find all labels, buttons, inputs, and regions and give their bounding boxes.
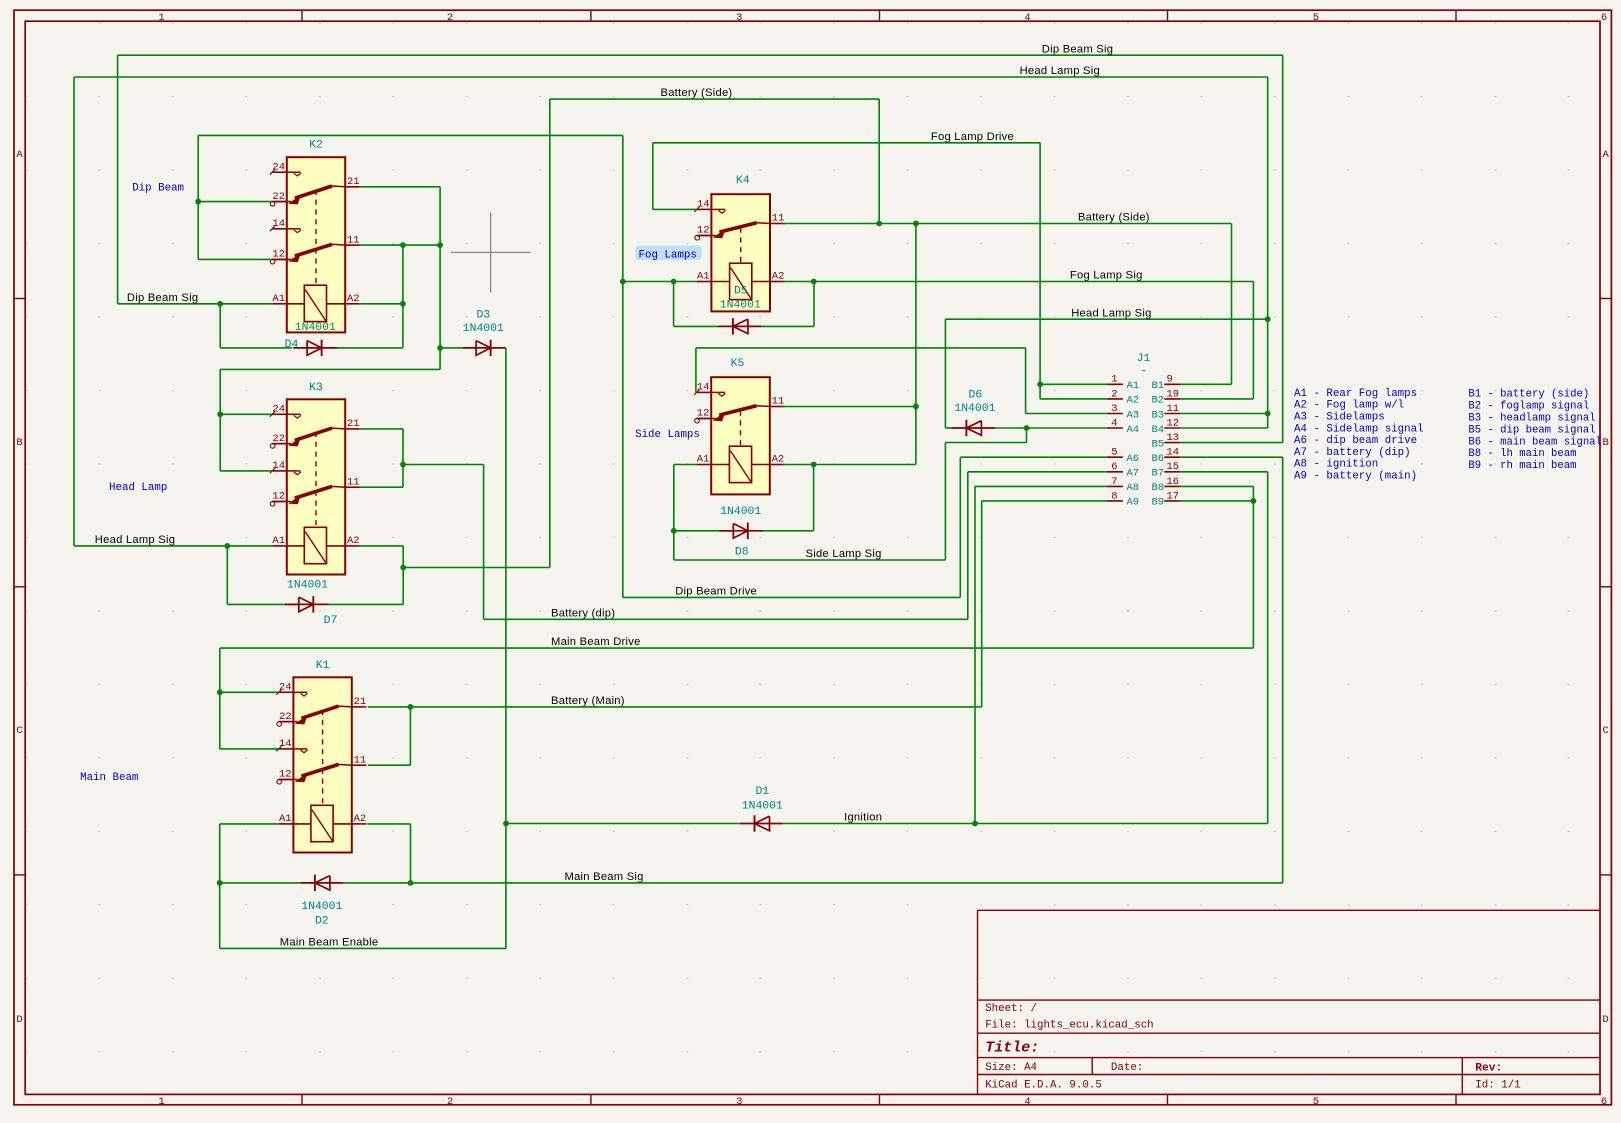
- svg-text:Side Lamp Sig: Side Lamp Sig: [806, 548, 882, 560]
- svg-text:B5 - dip beam signal: B5 - dip beam signal: [1468, 424, 1595, 436]
- svg-text:B: B: [16, 437, 22, 449]
- wire: [360, 486, 403, 488]
- net Fog Lamp Drive: [653, 143, 1107, 399]
- wire: [328, 603, 403, 605]
- junction: [876, 221, 882, 227]
- svg-text:A2: A2: [772, 271, 785, 283]
- junction: [913, 221, 919, 227]
- junction: [1037, 381, 1043, 387]
- svg-text:D3: D3: [476, 309, 490, 321]
- wire: [197, 135, 199, 259]
- svg-text:1N4001: 1N4001: [720, 506, 761, 518]
- wire: [1180, 427, 1267, 429]
- wire: [410, 706, 981, 708]
- svg-text:B2 - foglamp signal: B2 - foglamp signal: [1468, 401, 1589, 413]
- wire: [439, 187, 441, 370]
- svg-text:B6 - main beam signal: B6 - main beam signal: [1468, 436, 1602, 448]
- wire: [550, 98, 879, 100]
- svg-text:14: 14: [1167, 447, 1180, 459]
- net K2 contacts (Dip Beam): [198, 135, 272, 259]
- diode D5: [718, 318, 761, 334]
- svg-text:5: 5: [1313, 1096, 1319, 1108]
- diode D3: [462, 340, 505, 356]
- svg-text:B4: B4: [1152, 424, 1165, 436]
- svg-text:14: 14: [272, 460, 285, 472]
- svg-text:Ignition: Ignition: [844, 812, 882, 824]
- junction: [400, 301, 406, 307]
- wire: [198, 201, 272, 203]
- svg-text:Dip Beam Sig: Dip Beam Sig: [127, 292, 198, 304]
- relay K2: [270, 140, 360, 333]
- wire: [975, 485, 1107, 487]
- junction: [408, 704, 414, 710]
- J1 pin 4 (A4): [1107, 427, 1123, 429]
- svg-text:19: 19: [1167, 388, 1180, 400]
- wire: [220, 347, 292, 349]
- wire: [410, 824, 412, 883]
- wire: [673, 465, 675, 561]
- diode D4: [293, 340, 336, 356]
- wire: [74, 76, 1268, 78]
- svg-text:K5: K5: [731, 358, 745, 370]
- wire: [220, 823, 279, 825]
- wire: [981, 501, 983, 707]
- wire: [402, 546, 404, 605]
- svg-text:Battery (dip): Battery (dip): [551, 607, 615, 619]
- connector J1: [1107, 353, 1180, 509]
- svg-text:11: 11: [772, 213, 785, 225]
- wire: [813, 465, 815, 531]
- svg-text:Size: A4: Size: A4: [985, 1062, 1037, 1074]
- svg-text:Date:: Date:: [1111, 1062, 1143, 1074]
- svg-text:B8 - lh main beam: B8 - lh main beam: [1468, 448, 1576, 460]
- wire: [409, 707, 411, 765]
- svg-text:A9 - battery (main): A9 - battery (main): [1294, 471, 1417, 483]
- wire: [945, 318, 1267, 320]
- svg-text:4: 4: [1024, 1096, 1030, 1108]
- wire: [220, 470, 272, 472]
- svg-text:Title:: Title:: [985, 1040, 1039, 1057]
- svg-text:C: C: [1602, 725, 1608, 737]
- junction: [400, 242, 406, 248]
- wire: [220, 882, 301, 884]
- svg-text:B2: B2: [1152, 395, 1165, 407]
- svg-text:Fog Lamp Sig: Fog Lamp Sig: [1070, 270, 1143, 282]
- svg-text:11: 11: [347, 476, 360, 488]
- wire: [1252, 486, 1254, 648]
- svg-text:Id: 1/1: Id: 1/1: [1475, 1080, 1520, 1092]
- svg-text:24: 24: [272, 404, 285, 416]
- svg-text:A2: A2: [772, 454, 785, 466]
- wire: [219, 304, 221, 348]
- svg-text:A1: A1: [697, 454, 710, 466]
- net Main Beam Enable: [220, 947, 506, 949]
- wire: [118, 54, 1283, 56]
- svg-text:24: 24: [272, 161, 285, 173]
- svg-text:K1: K1: [316, 660, 330, 672]
- junction: [503, 821, 509, 827]
- svg-text:11: 11: [772, 396, 785, 408]
- wire: [198, 258, 272, 260]
- svg-text:Head Lamp Sig: Head Lamp Sig: [95, 534, 175, 546]
- J1 pin 5 (A6): [1107, 456, 1123, 458]
- wire: [219, 648, 221, 749]
- wire: [1025, 348, 1027, 414]
- svg-text:A8: A8: [1127, 482, 1140, 494]
- svg-text:A: A: [16, 149, 23, 161]
- svg-text:D6: D6: [968, 390, 982, 402]
- wire: [403, 567, 550, 569]
- wire: [1282, 457, 1284, 883]
- svg-text:K2: K2: [309, 140, 323, 152]
- wire: [368, 706, 411, 708]
- wire: [1267, 77, 1269, 428]
- wire: [411, 882, 1283, 884]
- svg-text:D: D: [1602, 1014, 1608, 1026]
- wire: [1252, 282, 1254, 399]
- svg-text:12: 12: [1167, 417, 1180, 429]
- net Fog Lamp Sig / K4 coil: [198, 135, 1253, 597]
- svg-text:4: 4: [1024, 12, 1030, 24]
- svg-text:1N4001: 1N4001: [742, 800, 783, 812]
- svg-text:A7: A7: [1127, 468, 1140, 480]
- svg-text:A1: A1: [272, 293, 285, 305]
- wire: [549, 99, 551, 567]
- svg-text:2: 2: [447, 12, 453, 24]
- wire: [945, 442, 1026, 444]
- svg-text:A2: A2: [347, 293, 360, 305]
- wire: [915, 224, 917, 465]
- wire: [652, 143, 654, 210]
- svg-text:21: 21: [347, 418, 360, 430]
- svg-text:A2: A2: [347, 535, 360, 547]
- wire: [220, 368, 440, 370]
- net Side Lamp Sig / K5 coil / D8: [674, 428, 1027, 560]
- svg-text:4: 4: [1111, 417, 1117, 429]
- wire: [483, 465, 485, 620]
- svg-text:Side Lamps: Side Lamps: [635, 429, 700, 441]
- wire: [1180, 442, 1282, 444]
- svg-text:6: 6: [1111, 461, 1117, 473]
- svg-text:B7: B7: [1152, 468, 1165, 480]
- junction: [671, 279, 677, 285]
- title block: [978, 910, 1601, 1094]
- svg-text:8: 8: [1111, 490, 1117, 502]
- wire: [674, 559, 946, 561]
- wire: [505, 348, 507, 949]
- wire: [674, 530, 733, 532]
- wire: [960, 456, 1107, 458]
- svg-text:A1: A1: [279, 813, 292, 825]
- wire: [623, 596, 961, 598]
- junction: [1265, 316, 1271, 322]
- svg-text:K3: K3: [309, 382, 323, 394]
- wire: [359, 303, 403, 305]
- wire: [198, 134, 623, 136]
- svg-text:A3 - Sidelamps: A3 - Sidelamps: [1294, 412, 1385, 424]
- junction: [224, 543, 230, 549]
- wire: [484, 618, 968, 620]
- wire: [343, 882, 410, 884]
- svg-text:A1: A1: [697, 271, 710, 283]
- svg-text:13: 13: [1167, 432, 1180, 444]
- relay K1: [276, 660, 366, 853]
- wire: [1180, 413, 1267, 415]
- net Dip Beam Sig: top bus: [118, 55, 1283, 442]
- junction: [811, 462, 817, 468]
- wire: [813, 282, 815, 327]
- wire: [783, 823, 1268, 825]
- wire: [220, 413, 272, 415]
- net labels: [95, 43, 1152, 948]
- svg-text:1N4001: 1N4001: [720, 299, 761, 311]
- svg-text:1N4001: 1N4001: [287, 579, 328, 591]
- wire: [360, 428, 403, 430]
- svg-text:C: C: [16, 725, 22, 737]
- junction: [437, 242, 443, 248]
- junction: [913, 404, 919, 410]
- wire: [360, 186, 440, 188]
- svg-text:A9: A9: [1127, 497, 1140, 509]
- svg-text:Dip Beam: Dip Beam: [132, 182, 184, 194]
- junction: [1251, 498, 1257, 504]
- svg-text:11: 11: [1167, 403, 1180, 415]
- svg-text:Main Beam Enable: Main Beam Enable: [280, 937, 379, 949]
- svg-text:6: 6: [1601, 1096, 1607, 1108]
- svg-text:B6: B6: [1152, 453, 1165, 465]
- J1 pin 7 (A8): [1107, 485, 1123, 487]
- svg-text:3: 3: [1111, 403, 1117, 415]
- svg-text:D8: D8: [735, 547, 749, 559]
- svg-text:24: 24: [279, 682, 292, 694]
- note Fog Lamps (selected): [636, 246, 702, 261]
- net K2 coil / D4 loop / Dip Beam Sig label row: [220, 304, 403, 348]
- wire: [674, 325, 719, 327]
- svg-text:A3: A3: [1127, 409, 1140, 421]
- net K2 output 21/11 to D3: [220, 187, 506, 949]
- wire: [673, 282, 675, 327]
- net Sidelamp signal A4 / D6: [945, 427, 1107, 429]
- note A pin list: [1294, 388, 1424, 483]
- svg-text:A1 - Rear Fog lamps: A1 - Rear Fog lamps: [1294, 388, 1417, 400]
- svg-text:Rev:: Rev:: [1475, 1062, 1502, 1074]
- wire: [878, 99, 880, 223]
- svg-text:Head Lamp: Head Lamp: [109, 482, 167, 494]
- net K3 output 21/11: [360, 429, 484, 619]
- J1 pin 1 (A1): [1107, 383, 1123, 385]
- svg-text:1N4001: 1N4001: [954, 403, 995, 415]
- diode D1: [740, 815, 783, 831]
- svg-text:B3: B3: [1152, 409, 1165, 421]
- J1 pin 6 (A7): [1107, 471, 1123, 473]
- svg-text:14: 14: [697, 382, 710, 394]
- svg-text:K4: K4: [736, 175, 750, 187]
- wire: [440, 347, 462, 349]
- wire: [982, 500, 1107, 502]
- svg-text:A1: A1: [1127, 380, 1140, 392]
- wire: [1180, 456, 1282, 458]
- svg-text:B1 - battery (side): B1 - battery (side): [1468, 389, 1589, 401]
- svg-text:14: 14: [697, 199, 710, 211]
- wire: [402, 245, 404, 348]
- relay K3: [270, 382, 360, 575]
- junction: [217, 411, 223, 417]
- svg-text:Main Beam Sig: Main Beam Sig: [565, 871, 644, 883]
- svg-text:A1: A1: [272, 535, 285, 547]
- svg-text:3: 3: [736, 1096, 742, 1108]
- wire: [761, 325, 815, 327]
- wire: [368, 764, 411, 766]
- wire: [944, 319, 946, 428]
- wire: [674, 464, 697, 466]
- wire: [506, 823, 740, 825]
- wire: [359, 545, 403, 547]
- svg-text:9: 9: [1167, 374, 1173, 386]
- svg-text:14: 14: [279, 738, 292, 750]
- wire: [761, 530, 814, 532]
- svg-text:1: 1: [158, 1096, 164, 1108]
- wire: [653, 208, 697, 210]
- net Battery (dip): [484, 472, 1107, 620]
- svg-text:A4: A4: [1127, 424, 1140, 436]
- svg-text:11: 11: [347, 234, 360, 246]
- wire: [1026, 428, 1028, 443]
- J1 pin 3 (A3): [1107, 413, 1123, 415]
- wire: [74, 545, 272, 547]
- svg-text:1: 1: [1111, 374, 1117, 386]
- svg-text:1N4001: 1N4001: [463, 323, 504, 335]
- net Main Beam Drive: [220, 486, 1254, 749]
- wire: [220, 748, 279, 750]
- wire: [653, 142, 1040, 144]
- wire: [1039, 143, 1041, 399]
- svg-text:15: 15: [1167, 461, 1180, 473]
- wire: [623, 281, 697, 283]
- wire: [994, 427, 1107, 429]
- svg-text:J1: J1: [1137, 353, 1151, 365]
- svg-text:A8 - ignition: A8 - ignition: [1294, 459, 1378, 471]
- junction: [671, 528, 677, 534]
- wire: [220, 647, 1254, 649]
- junction: [217, 689, 223, 695]
- svg-text:A: A: [1602, 149, 1609, 161]
- svg-text:7: 7: [1111, 476, 1117, 488]
- wire: [220, 947, 506, 949]
- wire: [367, 823, 410, 825]
- net Dip Beam Drive: [623, 457, 1107, 597]
- svg-text:Battery (Side): Battery (Side): [661, 87, 733, 99]
- svg-text:Battery (Side): Battery (Side): [1078, 211, 1150, 223]
- wire: [783, 406, 916, 408]
- svg-text:Main Beam Drive: Main Beam Drive: [551, 636, 641, 648]
- junction: [620, 279, 626, 285]
- wire: [968, 471, 1107, 473]
- svg-text:D4: D4: [285, 339, 299, 351]
- relay K4: [694, 175, 784, 311]
- net Main Beam Sig / D2: [220, 457, 1283, 948]
- wire: [695, 348, 697, 393]
- svg-text:16: 16: [1167, 476, 1180, 488]
- diode D2: [300, 875, 343, 891]
- svg-text:KiCad E.D.A. 9.0.5: KiCad E.D.A. 9.0.5: [985, 1080, 1102, 1092]
- wire: [783, 464, 916, 466]
- diode D6: [952, 420, 995, 436]
- svg-text:A6 - dip beam drive: A6 - dip beam drive: [1294, 435, 1417, 447]
- wire: [219, 369, 221, 471]
- wire: [944, 443, 946, 561]
- svg-text:D1: D1: [755, 786, 769, 798]
- wire: [1180, 398, 1253, 400]
- net Battery (Main): [368, 501, 1107, 765]
- wire: [1026, 413, 1107, 415]
- svg-text:Sheet: /: Sheet: /: [985, 1003, 1037, 1015]
- svg-text:B9: B9: [1152, 497, 1165, 509]
- junction: [408, 880, 414, 886]
- wire: [622, 135, 624, 597]
- wire: [220, 691, 279, 693]
- svg-text:21: 21: [354, 696, 367, 708]
- junction: [400, 565, 406, 571]
- svg-text:A7 - battery (dip): A7 - battery (dip): [1294, 447, 1411, 459]
- junction: [400, 462, 406, 468]
- wire: [118, 303, 273, 305]
- wire: [1180, 471, 1267, 473]
- wire: [959, 457, 961, 597]
- svg-text:Head Lamp Sig: Head Lamp Sig: [1071, 307, 1151, 319]
- net Ignition: [506, 472, 1268, 824]
- svg-text:11: 11: [354, 754, 367, 766]
- wire: [1267, 472, 1269, 824]
- wire: [1231, 224, 1233, 385]
- svg-text:A2: A2: [354, 813, 367, 825]
- svg-text:2: 2: [447, 1096, 453, 1108]
- wire: [783, 281, 1254, 283]
- wire: [219, 824, 221, 949]
- svg-text:B8: B8: [1152, 482, 1165, 494]
- svg-text:A6: A6: [1127, 453, 1140, 465]
- svg-text:6: 6: [1601, 12, 1607, 24]
- net Sidelamps A3 / K5 pin14: [696, 348, 1107, 414]
- svg-text:D5: D5: [734, 286, 748, 298]
- wire: [336, 347, 403, 349]
- svg-text:D7: D7: [324, 615, 338, 627]
- net Battery (Side): [227, 99, 1231, 604]
- svg-text:File: lights_ecu.kicad_sch: File: lights_ecu.kicad_sch: [985, 1020, 1153, 1032]
- svg-text:B5: B5: [1152, 438, 1165, 450]
- svg-text:14: 14: [272, 218, 285, 230]
- cursor crosshair (gray): [451, 212, 531, 292]
- junction: [195, 199, 201, 205]
- wire: [1180, 485, 1253, 487]
- wire: [402, 429, 404, 487]
- wire: [360, 244, 440, 246]
- svg-text:5: 5: [1111, 447, 1117, 459]
- svg-text:B9 - rh main beam: B9 - rh main beam: [1468, 460, 1576, 472]
- svg-text:1: 1: [158, 12, 164, 24]
- wire: [1040, 383, 1107, 385]
- diode D7: [285, 596, 328, 612]
- wire: [117, 55, 119, 304]
- svg-text:Battery (Main): Battery (Main): [551, 695, 625, 707]
- diode D8: [720, 523, 763, 539]
- junction: [972, 821, 978, 827]
- junction: [1024, 425, 1030, 431]
- svg-text:-: -: [1140, 366, 1147, 378]
- svg-text:2: 2: [1111, 388, 1117, 400]
- svg-text:1N4001: 1N4001: [301, 901, 342, 913]
- wire: [974, 486, 976, 823]
- svg-text:Main Beam: Main Beam: [80, 772, 138, 784]
